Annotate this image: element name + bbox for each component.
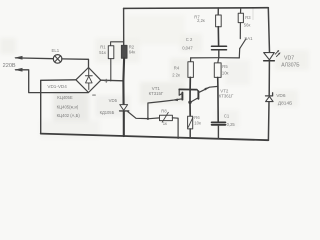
svg-text:R1: R1 [100,45,106,50]
svg-text:КТ361Г: КТ361Г [219,94,234,99]
svg-text:КЦ402 (А,Б): КЦ402 (А,Б) [57,113,81,118]
zener VD6 [266,93,273,96]
svg-text:10к: 10к [222,71,229,76]
svg-text:КЦ405Е: КЦ405Е [57,95,73,100]
diode VD5 [120,105,128,111]
svg-text:VD5: VD5 [109,98,118,103]
svg-text:КТ315Г: КТ315Г [149,91,164,96]
resistor R3 [238,13,243,22]
svg-text:2 2к: 2 2к [172,73,180,78]
resistor R7 [216,15,222,27]
svg-text:VD7: VD7 [284,56,294,62]
wire junction to R5 [217,58,220,63]
switch SA1 [240,39,246,49]
transistor VT2 [197,91,199,99]
capacitor C1 [212,121,226,123]
svg-text:КД105Б: КД105Б [100,110,115,115]
svg-text:2,2к: 2,2к [197,18,205,23]
svg-text:R3: R3 [245,15,251,20]
wire main left vertical lower [123,111,125,136]
svg-text:64к: 64к [129,49,136,54]
svg-text:220В: 220В [3,63,16,69]
arrow top terminal [14,56,22,60]
svg-text:SA1: SA1 [244,36,253,41]
wire R4 top lead [190,58,192,62]
LED VD7 [264,53,275,60]
arrow bottom terminal [14,68,22,72]
svg-text:КЦ405(ж,и): КЦ405(ж,и) [57,105,79,110]
svg-text:R8: R8 [161,109,167,114]
resistor R6 (slashed) [188,116,193,129]
wire main left vertical upper [123,8,125,45]
svg-text:EL1: EL1 [52,48,60,53]
node A [147,118,149,120]
resistor R4 [188,62,194,78]
wire bridge plus to main vertical [101,79,124,82]
wire R8 right lead down to rail [172,118,178,139]
node VT collector junction [188,101,191,104]
wire main left vertical mid [122,58,125,104]
wire bar to node [189,90,191,102]
wire node to R6 [189,103,191,116]
wire VD5 to node A diagonal [128,112,148,119]
top rail [124,7,269,10]
wire C2 to junction [218,51,220,58]
wire zener to rail [267,102,270,140]
svg-text:1к: 1к [163,121,167,126]
transistor VT1 [181,93,183,100]
wire R1 jog [111,42,124,46]
wire 220V top feed with arrow [16,57,54,60]
label minus mark [93,94,96,96]
wire right vertical from top rail [217,8,219,15]
svg-text:С 2: С 2 [186,37,193,42]
wire C1 bottom to rail [217,126,219,139]
capacitor C2 [212,45,227,47]
wire collector bar VT1/VT2 [179,88,197,90]
svg-text:0,25: 0,25 [227,122,236,127]
wire R4 bottom to bar [189,77,191,89]
wire R7 to C2 [217,27,219,46]
label plus mark [105,79,108,82]
svg-text:VD6: VD6 [276,93,286,99]
svg-text:С1: С1 [224,114,230,119]
svg-text:0,047: 0,047 [182,45,193,50]
resistor R2 (dark) [121,45,127,58]
svg-text:VD1-VD4: VD1-VD4 [47,84,67,89]
bridge inner diode [85,69,92,90]
wire R1 bottom lead [110,59,112,81]
svg-text:АЛ307Б: АЛ307Б [281,62,300,68]
svg-text:R5: R5 [222,64,228,69]
svg-text:Д814Б: Д814Б [278,100,292,106]
svg-text:10к: 10к [194,121,201,126]
resistor R1 [108,46,114,59]
wire LED branch from top rail [268,8,269,53]
wire node A up to VT1 emitter [148,100,174,119]
resistor R5 [214,63,221,78]
svg-text:56к: 56к [244,22,251,27]
wire R3 branch from top rail [240,8,242,13]
wire R6 bottom to rail [189,129,191,138]
wire R4/C2/SA1 horizontal y58 [191,57,240,59]
wire 220V bottom feed with arrow [16,70,89,93]
wire LED to zener [268,62,270,96]
wire lamp to bridge top [62,59,89,68]
wire SA1 bottom [238,48,240,58]
wire bridge minus to bottom rail [41,80,76,134]
svg-text:51к: 51к [99,50,106,55]
wire R3 to switch [239,23,241,39]
bridge rectifier VD1-VD4 diamond [76,68,101,93]
wire R5 to VT2 emitter and C1 [217,77,220,121]
svg-text:R4: R4 [174,65,180,70]
variable resistor R8 [149,117,160,120]
lamp EL1 [53,55,62,64]
bottom rail [41,134,269,141]
svg-text:R6: R6 [194,115,200,120]
